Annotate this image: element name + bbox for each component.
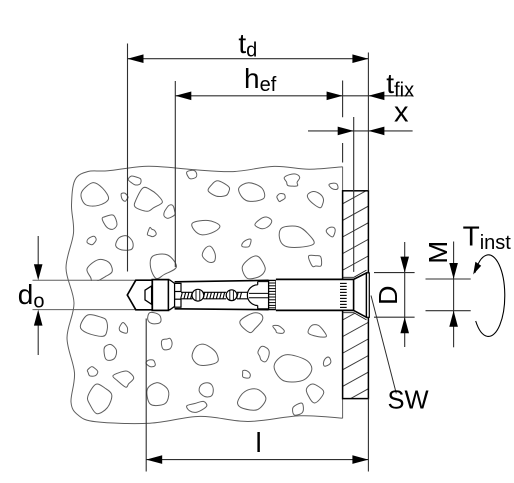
extension line head start bbox=[353, 117, 355, 272]
knurled band rear bbox=[269, 280, 276, 309]
slot end dome bbox=[247, 282, 257, 309]
drill hole wall bottom bbox=[33, 309, 136, 311]
expansion sleeve body bbox=[175, 280, 269, 309]
dimension t_fix bbox=[368, 68, 414, 102]
dimension t_d bbox=[128, 28, 369, 63]
extension line anchor rear bbox=[145, 319, 147, 472]
aggregate stones bbox=[80, 170, 338, 415]
knurled band at surface bbox=[340, 283, 347, 307]
rod ball 2 bbox=[226, 290, 237, 301]
sleeve slot prong bottom bbox=[175, 299, 181, 307]
svg-text:M: M bbox=[423, 241, 453, 264]
drill hole clearance bbox=[80, 281, 342, 309]
sleeve slot prong top bbox=[175, 283, 181, 291]
svg-text:Tinst: Tinst bbox=[463, 221, 512, 254]
sleeve neck edges bbox=[258, 282, 269, 309]
dimension M bbox=[423, 241, 471, 348]
countersink hole edges bbox=[343, 270, 367, 320]
fixture plate hatching bbox=[343, 190, 369, 420]
svg-text:do: do bbox=[18, 279, 45, 313]
concrete block outline bbox=[66, 166, 343, 423]
collar chamfer piece bbox=[169, 280, 175, 310]
svg-text:D: D bbox=[373, 285, 403, 305]
countersunk head bbox=[354, 273, 367, 317]
dimension D bbox=[373, 242, 415, 347]
extension line fixture face lower bbox=[367, 399, 369, 472]
extension line fixture face upper bbox=[367, 53, 369, 191]
svg-text:td: td bbox=[238, 28, 257, 62]
head face bbox=[367, 273, 370, 317]
extension line drill bottom bbox=[127, 44, 129, 272]
front collar ring bbox=[152, 280, 168, 311]
svg-text:l: l bbox=[256, 427, 262, 458]
threaded cone bolt rod bbox=[181, 292, 269, 299]
dimension l bbox=[146, 427, 368, 464]
dimension h_ef bbox=[175, 63, 412, 100]
bolt shank bbox=[276, 279, 354, 310]
inner expander cone bbox=[145, 286, 152, 304]
svg-text:x: x bbox=[394, 96, 409, 128]
torque rotation arrow bbox=[473, 255, 505, 337]
drill hole wall top bbox=[33, 279, 136, 281]
dimension d_o bbox=[18, 236, 45, 355]
svg-text:SW: SW bbox=[388, 387, 429, 415]
dimension x bbox=[308, 96, 413, 135]
rod ball 1 bbox=[192, 289, 204, 301]
extension line h_ef left bbox=[174, 81, 176, 267]
extension line concrete surface bbox=[342, 81, 344, 163]
svg-text:hef: hef bbox=[244, 63, 277, 96]
fixture plate outline bbox=[343, 191, 369, 399]
label T_inst bbox=[463, 221, 512, 254]
anchor tip cone bbox=[127, 280, 152, 310]
label SW with leader bbox=[371, 296, 429, 415]
